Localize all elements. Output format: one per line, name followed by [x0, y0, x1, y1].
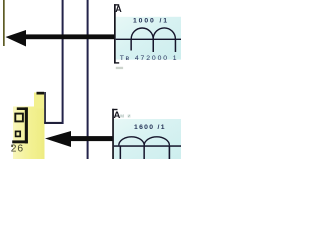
svg-text:Тв 472000 1: Тв 472000 1 [120, 55, 179, 62]
svg-text:м и: м и [120, 113, 131, 119]
svg-text:26: 26 [11, 144, 24, 155]
svg-text:1600 /1: 1600 /1 [134, 124, 166, 131]
svg-text:A: A [115, 4, 122, 14]
svg-text:1000 /1: 1000 /1 [133, 18, 169, 25]
